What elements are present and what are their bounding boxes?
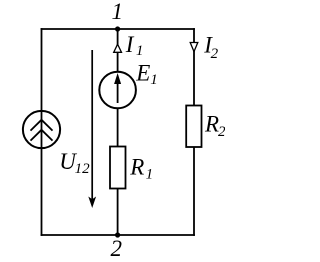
label U12 [59,149,90,177]
label I2 [203,33,218,62]
svg-text:I: I [125,32,135,57]
wire: middle branch (node 1 to node 2) [117,29,119,235]
current source circle (left branch) [23,111,60,148]
svg-text:2: 2 [110,236,122,261]
svg-text:12: 12 [75,161,91,177]
wire: top (node 1 rail) [41,28,195,30]
svg-text:R: R [129,155,144,180]
label I1 [125,32,144,59]
svg-text:1: 1 [146,167,154,183]
wire: left branch [41,28,43,236]
label R2 [204,111,226,140]
current arrow I2 (hollow, down) [190,43,198,52]
svg-text:2: 2 [218,124,225,140]
wire: right branch [193,28,195,236]
current source double arrow [31,120,53,141]
label E1 [135,61,158,88]
node 1 junction dot [115,26,120,31]
voltage arrow U12 [88,50,96,208]
current arrow I1 (hollow, up) [114,44,122,52]
label R1 [129,155,153,183]
svg-text:R: R [204,111,219,136]
svg-text:E: E [135,61,150,86]
EMF source E1 circle [99,72,136,109]
svg-text:1: 1 [136,43,144,59]
E1 arrow [114,73,121,103]
svg-text:2: 2 [211,46,219,62]
wire: bottom (node 2 rail) [41,234,195,236]
resistor R2 [186,106,201,148]
node 2 junction dot [115,232,120,237]
svg-text:1: 1 [150,72,158,88]
svg-text:1: 1 [112,0,124,24]
resistor R1 [110,147,126,189]
